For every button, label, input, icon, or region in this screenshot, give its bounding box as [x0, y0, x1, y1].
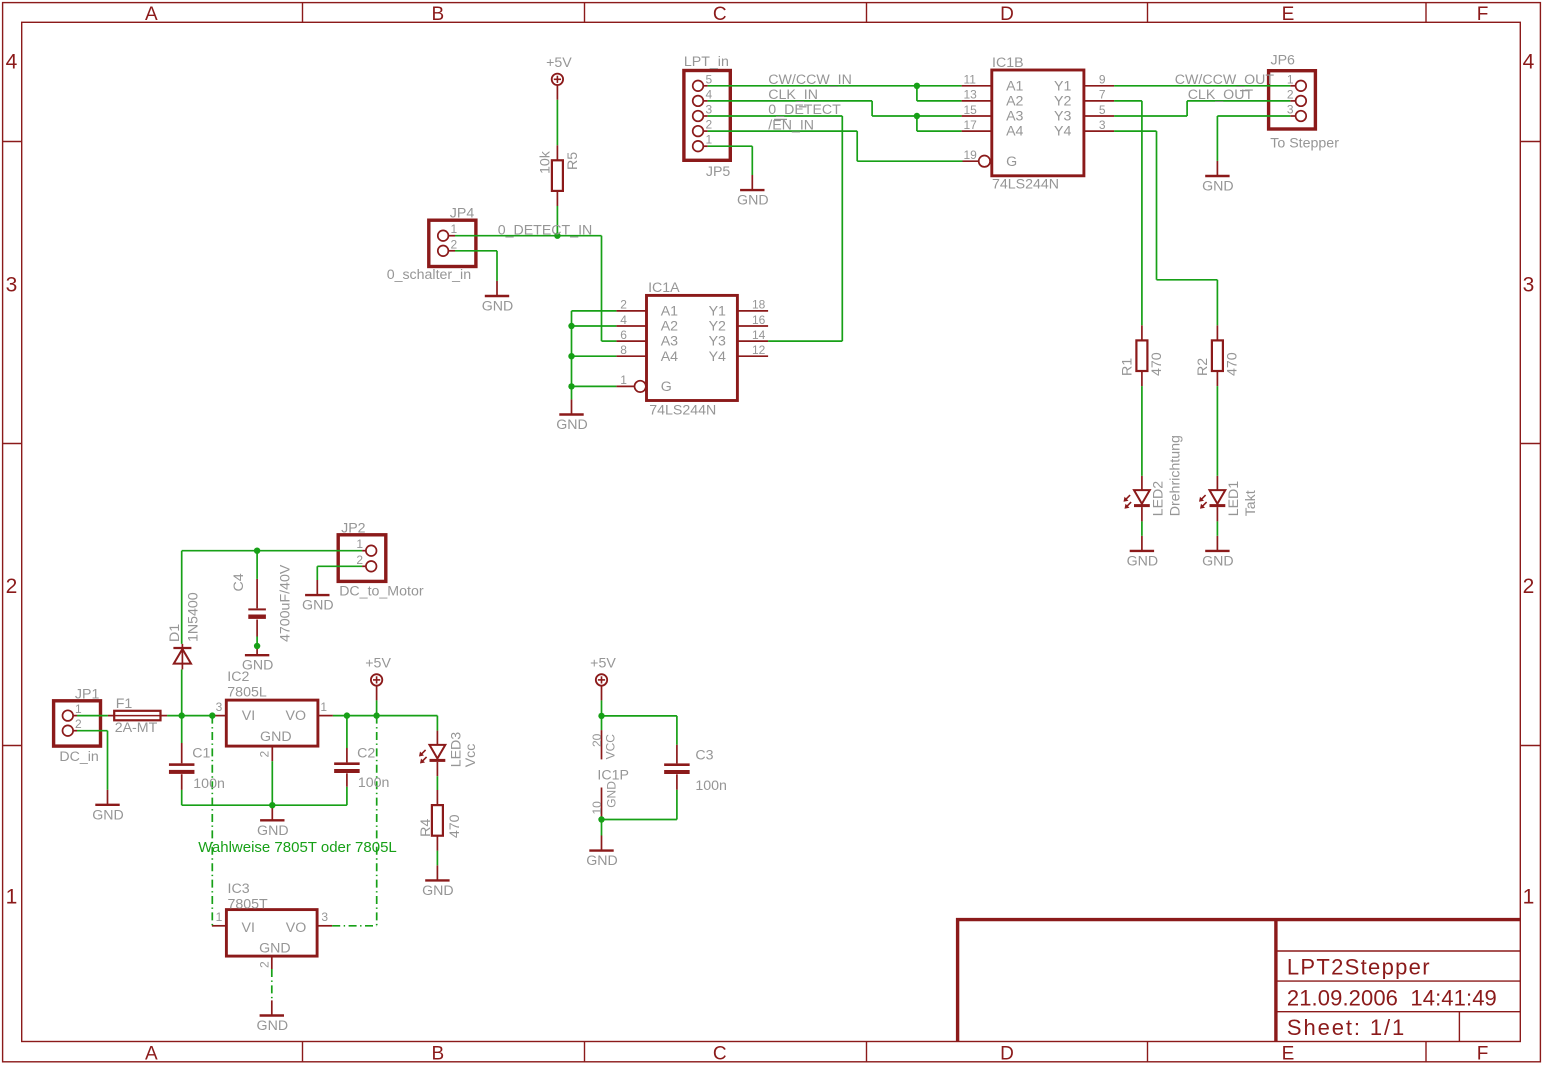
svg-text:GND: GND — [260, 729, 292, 745]
svg-text:A3: A3 — [1006, 109, 1023, 125]
svg-text:2: 2 — [1287, 87, 1294, 101]
svg-text:15: 15 — [964, 103, 978, 117]
svg-text:VI: VI — [242, 920, 255, 936]
svg-text:GND: GND — [302, 598, 334, 614]
svg-text:+5V: +5V — [590, 656, 616, 672]
svg-text:3: 3 — [216, 700, 223, 714]
svg-text:Takt: Takt — [1243, 490, 1259, 516]
svg-text:10: 10 — [590, 801, 604, 815]
svg-text:3: 3 — [706, 103, 713, 117]
svg-text:DC_to_Motor: DC_to_Motor — [339, 583, 424, 599]
svg-text:14: 14 — [752, 328, 766, 342]
svg-text:7805L: 7805L — [227, 685, 267, 701]
svg-text:Y1: Y1 — [709, 304, 726, 320]
svg-text:2: 2 — [356, 553, 363, 567]
svg-text:GND: GND — [586, 853, 618, 869]
svg-text:IC1A: IC1A — [648, 280, 680, 296]
svg-text:LED1: LED1 — [1226, 481, 1242, 517]
svg-text:LPT2Stepper: LPT2Stepper — [1287, 954, 1431, 979]
svg-text:GND: GND — [257, 1018, 289, 1034]
svg-text:G: G — [661, 379, 672, 395]
svg-text:JP1: JP1 — [75, 686, 100, 702]
svg-text:4: 4 — [620, 313, 627, 327]
svg-text:2: 2 — [451, 237, 458, 251]
svg-text:1N5400: 1N5400 — [186, 592, 202, 642]
svg-text:CW/CCW_IN: CW/CCW_IN — [768, 72, 852, 88]
svg-text:G: G — [1006, 154, 1017, 170]
svg-text:A4: A4 — [661, 349, 678, 365]
svg-text:CLK_IN: CLK_IN — [768, 87, 818, 103]
svg-text:+5V: +5V — [365, 656, 391, 672]
svg-text:100n: 100n — [695, 778, 727, 794]
svg-text:JP2: JP2 — [341, 520, 366, 536]
svg-text:LED2: LED2 — [1151, 481, 1167, 517]
svg-text:100n: 100n — [193, 776, 225, 792]
svg-text:Y1: Y1 — [1054, 78, 1071, 94]
svg-text:A: A — [145, 1044, 158, 1065]
svg-text:1: 1 — [6, 886, 18, 909]
svg-text:B: B — [431, 4, 444, 25]
svg-text:A2: A2 — [661, 319, 678, 335]
svg-text:Sheet: 1/1: Sheet: 1/1 — [1287, 1015, 1406, 1040]
svg-text:7: 7 — [1099, 88, 1106, 102]
svg-text:C: C — [713, 4, 727, 25]
svg-text:GND: GND — [259, 941, 291, 957]
svg-text:R1: R1 — [1120, 358, 1136, 376]
svg-text:JP4: JP4 — [450, 206, 475, 222]
svg-text:To Stepper: To Stepper — [1270, 135, 1339, 151]
svg-text:CW/CCW_OUT: CW/CCW_OUT — [1175, 72, 1275, 88]
svg-text:4: 4 — [706, 87, 713, 101]
svg-text:1: 1 — [706, 133, 713, 147]
svg-text:0_DETECT_IN: 0_DETECT_IN — [498, 223, 593, 239]
svg-text:2: 2 — [258, 751, 272, 758]
svg-text:13: 13 — [964, 88, 978, 102]
svg-text:GND: GND — [257, 823, 289, 839]
svg-text:R5: R5 — [565, 152, 581, 170]
svg-text:GND: GND — [92, 807, 124, 823]
svg-text:+5V: +5V — [546, 55, 572, 71]
svg-text:1: 1 — [1523, 886, 1535, 909]
svg-text:A: A — [145, 4, 158, 25]
svg-text:2: 2 — [620, 298, 627, 312]
svg-text:2A-MT: 2A-MT — [115, 720, 158, 736]
svg-text:E: E — [1282, 1044, 1295, 1065]
svg-text:GND: GND — [1202, 179, 1234, 195]
svg-text:1: 1 — [1287, 72, 1294, 86]
svg-text:F: F — [1477, 4, 1489, 25]
svg-text:GND: GND — [737, 193, 769, 209]
svg-text:18: 18 — [752, 298, 766, 312]
svg-text:10k: 10k — [538, 150, 554, 174]
svg-text:2: 2 — [706, 118, 713, 132]
svg-text:Y3: Y3 — [709, 334, 726, 350]
svg-text:0_DETECT: 0_DETECT — [768, 102, 841, 118]
svg-text:R4: R4 — [418, 819, 434, 837]
svg-text:C4: C4 — [231, 573, 247, 591]
svg-text:VCC: VCC — [603, 734, 617, 760]
svg-text:VO: VO — [286, 708, 307, 724]
svg-text:12: 12 — [752, 343, 766, 357]
svg-text:2: 2 — [1523, 575, 1535, 598]
svg-text:3: 3 — [1287, 103, 1294, 117]
svg-text:F: F — [1477, 1044, 1489, 1065]
svg-text:74LS244N: 74LS244N — [649, 403, 716, 419]
svg-text:3: 3 — [1523, 274, 1535, 297]
svg-text:C: C — [713, 1044, 727, 1065]
svg-text:4: 4 — [1523, 51, 1535, 74]
svg-text:470: 470 — [1149, 352, 1165, 376]
svg-text:6: 6 — [620, 328, 627, 342]
svg-text:JP5: JP5 — [706, 164, 731, 180]
svg-text:JP6: JP6 — [1271, 53, 1296, 69]
svg-text:1: 1 — [320, 700, 327, 714]
svg-text:A1: A1 — [661, 304, 678, 320]
svg-text:VI: VI — [242, 708, 255, 724]
svg-text:74LS244N: 74LS244N — [992, 177, 1059, 193]
svg-text:D: D — [1000, 1044, 1014, 1065]
svg-text:GND: GND — [604, 781, 618, 808]
svg-text:F1: F1 — [116, 696, 133, 712]
svg-text:Y2: Y2 — [1054, 94, 1071, 110]
svg-text:CLK_OUT: CLK_OUT — [1188, 87, 1254, 103]
svg-text:1: 1 — [356, 537, 363, 551]
svg-text:IC1B: IC1B — [992, 55, 1024, 71]
svg-text:GND: GND — [1127, 553, 1159, 569]
svg-text:D1: D1 — [167, 624, 183, 642]
svg-text:11: 11 — [964, 73, 977, 87]
svg-text:A3: A3 — [661, 334, 678, 350]
svg-text:C2: C2 — [357, 746, 375, 762]
svg-text:470: 470 — [1224, 352, 1240, 376]
svg-text:Wahlweise 7805T oder 7805L: Wahlweise 7805T oder 7805L — [198, 839, 396, 856]
svg-text:A4: A4 — [1006, 124, 1023, 140]
svg-text:DC_in: DC_in — [59, 749, 98, 765]
svg-text:D: D — [1000, 4, 1014, 25]
svg-text:LED3: LED3 — [448, 732, 464, 768]
svg-text:A1: A1 — [1006, 78, 1023, 94]
svg-text:GND: GND — [1202, 553, 1234, 569]
svg-text:21.09.2006 14:41:49: 21.09.2006 14:41:49 — [1287, 985, 1497, 1010]
svg-text:LPT_in: LPT_in — [684, 54, 729, 70]
svg-text:7805T: 7805T — [228, 896, 269, 912]
svg-text:1: 1 — [620, 373, 627, 387]
svg-text:IC3: IC3 — [228, 881, 250, 897]
svg-text:Y3: Y3 — [1054, 109, 1071, 125]
svg-text:Drehrichtung: Drehrichtung — [1168, 435, 1184, 516]
svg-text:Y4: Y4 — [709, 349, 726, 365]
svg-text:A2: A2 — [1006, 94, 1023, 110]
svg-text:8: 8 — [620, 343, 627, 357]
svg-text:GND: GND — [482, 299, 514, 315]
svg-text:0_schalter_in: 0_schalter_in — [387, 267, 471, 283]
svg-text:16: 16 — [752, 313, 766, 327]
svg-text:2: 2 — [6, 575, 18, 598]
svg-text:2: 2 — [258, 961, 272, 968]
svg-text:3: 3 — [1099, 118, 1106, 132]
svg-text:2: 2 — [75, 717, 82, 731]
svg-text:3: 3 — [321, 910, 328, 924]
svg-text:E: E — [1282, 4, 1295, 25]
svg-text:17: 17 — [964, 118, 978, 132]
svg-text:Y4: Y4 — [1054, 124, 1071, 140]
svg-text:5: 5 — [1099, 103, 1106, 117]
svg-text:100n: 100n — [358, 775, 390, 791]
svg-text:20: 20 — [590, 733, 604, 747]
svg-text:C3: C3 — [695, 748, 713, 764]
svg-text:4700uF/40V: 4700uF/40V — [278, 564, 294, 642]
svg-text:GND: GND — [422, 883, 454, 899]
svg-text:1: 1 — [75, 702, 82, 716]
svg-text:470: 470 — [447, 814, 463, 838]
svg-text:4: 4 — [6, 51, 18, 74]
svg-text:Vcc: Vcc — [463, 744, 479, 768]
svg-text:5: 5 — [706, 72, 713, 86]
svg-text:R2: R2 — [1195, 358, 1211, 376]
svg-text:B: B — [431, 1044, 444, 1065]
svg-text:1: 1 — [216, 910, 223, 924]
svg-text:3: 3 — [6, 274, 18, 297]
svg-text:GND: GND — [556, 417, 588, 433]
svg-text:9: 9 — [1099, 73, 1106, 87]
svg-text:Y2: Y2 — [709, 319, 726, 335]
svg-text:VO: VO — [286, 920, 307, 936]
svg-text:C1: C1 — [192, 746, 210, 762]
svg-text:19: 19 — [964, 148, 978, 162]
svg-text:1: 1 — [451, 222, 458, 236]
svg-text:IC2: IC2 — [227, 669, 249, 685]
